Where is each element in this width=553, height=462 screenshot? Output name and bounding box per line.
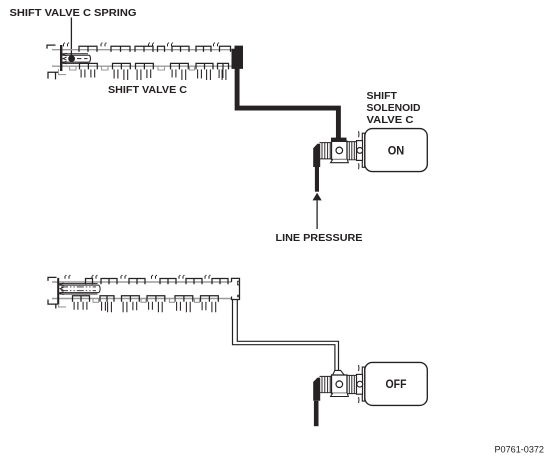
- valve block with port circle (left): [331, 141, 349, 163]
- svg-text:SHIFT VALVE C SPRING: SHIFT VALVE C SPRING: [10, 7, 137, 19]
- outlined inlet cap on top of OFF solenoid block: [333, 370, 345, 375]
- svg-text:OFF: OFF: [386, 379, 407, 391]
- thick drain tube below ON elbow: [315, 167, 319, 192]
- svg-text:LINE PRESSURE: LINE PRESSURE: [276, 232, 363, 244]
- spring: shift valve C spring (compressed, with dot marker): [62, 53, 90, 64]
- valve block with port circle (left): [331, 375, 349, 397]
- spring seat bar (left end of upper valve): [60, 45, 62, 71]
- solenoid ON body box: [365, 129, 428, 172]
- black elbow fitting: [313, 144, 320, 167]
- valve block with port circle (right): [357, 141, 363, 161]
- label: SHIFT VALVE C: [108, 84, 187, 96]
- thick pressure line from valve end cap to ON solenoid: [237, 68, 338, 140]
- black inlet junction on top of ON solenoid block: [331, 138, 347, 142]
- label: LINE PRESSURE: [276, 232, 363, 244]
- spring: shift valve C spring (extended, dash-dot): [59, 283, 100, 295]
- inlet barrel (left, ribbed): [320, 143, 332, 159]
- valve body: SHIFT VALVE C (upper, pressurized state): [47, 43, 232, 80]
- svg-text:SHIFT: SHIFT: [367, 90, 398, 102]
- black elbow fitting: [313, 378, 320, 401]
- solenoid valve (OFF): mounting flange and ears: [359, 365, 365, 403]
- arrow: line pressure (up arrow): [313, 193, 322, 229]
- inlet barrel (left, ribbed): [320, 376, 332, 392]
- solenoid valve (ON): mounting flange and ears: [359, 131, 365, 169]
- outlined end cap (right end of lower valve): [232, 278, 240, 299]
- svg-text:P0761-0372: P0761-0372: [495, 445, 545, 456]
- svg-text:VALVE C: VALVE C: [367, 114, 414, 126]
- spring seat bar (left end of lower valve): [57, 278, 59, 304]
- threaded barrel between blocks: [347, 142, 357, 160]
- svg-text:ON: ON: [388, 145, 405, 157]
- solenoid OFF body box: [365, 362, 428, 405]
- valve block with port circle (right): [357, 374, 363, 394]
- svg-text:SOLENOID: SOLENOID: [367, 102, 421, 114]
- threaded barrel between blocks: [347, 375, 357, 393]
- label: ON: [388, 145, 405, 157]
- label: P0761-0372 (figure number): [495, 445, 545, 456]
- thick drain tube below OFF elbow: [314, 401, 319, 426]
- svg-text:SHIFT VALVE C: SHIFT VALVE C: [108, 84, 187, 96]
- thin pipe from lower valve to OFF solenoid (double line): [233, 300, 339, 372]
- label: SHIFT SOLENOID VALVE C: [367, 90, 421, 126]
- leader line from spring label to spring: [70, 18, 72, 57]
- label: SHIFT VALVE C SPRING: [10, 7, 137, 19]
- label: OFF: [386, 379, 407, 391]
- black end cap (right end of upper valve): [232, 46, 244, 69]
- valve body: shift valve C (lower, exhausted state): [48, 275, 232, 312]
